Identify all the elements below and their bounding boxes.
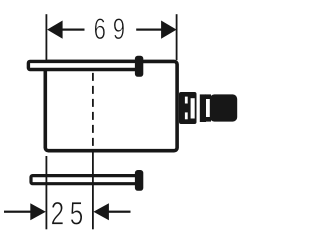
extension line left (bottom, from body down to dim 25) <box>46 156 48 229</box>
connector flange slot lower <box>185 112 188 119</box>
svg-text:25: 25 <box>51 196 89 232</box>
bottom rod (lower mounting pin) <box>31 176 138 184</box>
connector nut (hose coupling) <box>210 94 237 121</box>
top knob (screw head on upper pin) <box>135 56 143 77</box>
dimension line 25 right tail with arrowhead <box>93 203 130 220</box>
top rod (upper mounting pin) <box>28 61 138 69</box>
svg-text:69: 69 <box>94 12 132 46</box>
connector flange slot upper <box>185 97 188 104</box>
dimension line 69 left segment with arrowhead <box>47 21 84 39</box>
extension line right (top, from dim 69 down to body corner) <box>176 14 178 60</box>
bracket body (main housing rectangle) <box>45 61 177 150</box>
hose connector flange at right wall <box>179 92 197 124</box>
dimension line 25 left tail with arrowhead <box>4 203 46 220</box>
connector groove bridge top <box>206 94 212 99</box>
extension line left (top, from dim 69 down to rod) <box>46 14 48 60</box>
dimension line 69 right segment with arrowhead <box>136 21 176 39</box>
bottom knob (screw head on lower pin) <box>135 170 143 191</box>
connector groove bridge bottom <box>206 117 212 122</box>
connector neck block <box>200 94 206 122</box>
connector flange tall slot <box>191 98 195 118</box>
centre line (dashed axis through body) <box>92 73 94 229</box>
